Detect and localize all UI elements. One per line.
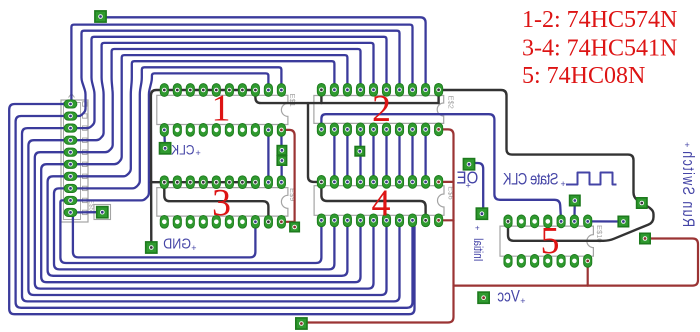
square pad E$5 (below connector) xyxy=(97,207,108,218)
wire connector pin1 fanout to U2.8 (top bundle) xyxy=(71,25,412,104)
wire connector pin10 to U3 pin8 (bottom lane) xyxy=(73,212,256,257)
wire U2 pin2 (bottom) to U4 pin2 (top) xyxy=(333,129,335,182)
wire Run Switch net: U2 pin10 to pad B to U5 pin1 xyxy=(439,90,654,241)
wire OE pad to Initial pad xyxy=(472,163,483,214)
svg-text:+: + xyxy=(685,140,690,150)
wire U2 pin9 (bottom) to U4 pin9 (top) xyxy=(424,129,426,182)
wire U3 top bus pins1-8 xyxy=(151,181,256,183)
svg-text:3: 3 xyxy=(212,182,231,224)
node label CLK xyxy=(171,142,195,158)
connector J1 pin ticks xyxy=(83,102,88,106)
U1 top pad row xyxy=(160,84,168,97)
square pad bottom (Vcc rail end) xyxy=(296,318,307,329)
wire GND bus branch down to U4 pin1 xyxy=(308,103,321,182)
via V3 (power, right of U3) xyxy=(290,222,299,231)
wire Vcc net: U2 pin10 down right side to bottom pad xyxy=(301,129,453,322)
wire U1 pin10 (bottom) to U3 pin10 (top) via V1 V2 xyxy=(280,130,283,182)
wire U2 pin6 (bottom) to U4 pin6 (top) xyxy=(385,129,387,182)
wire connector pin9 fanout to U1.9 (top bundle) xyxy=(77,73,268,200)
svg-text:1: 1 xyxy=(212,87,231,129)
svg-text:+: + xyxy=(196,148,201,158)
wire U1 pin1 (bottom) to CLK pad xyxy=(163,130,166,146)
node label GND xyxy=(163,235,191,251)
U2 top pad row xyxy=(317,83,325,96)
node label Run Switch xyxy=(679,150,697,227)
wire U2 pin4 (bottom) to U4 pin4 (top) xyxy=(359,129,361,182)
svg-text:+: + xyxy=(191,243,196,253)
wire U2 pin10 top from bus xyxy=(437,90,439,103)
wire U2 pin7 (bottom) to U4 pin7 (top) xyxy=(398,129,400,182)
svg-text:+: + xyxy=(475,224,480,233)
connector pin1 silk marker xyxy=(69,94,75,98)
wire U2 pin3 (bottom) to U4 pin3 (top) xyxy=(346,129,348,182)
svg-text:CLK: CLK xyxy=(171,142,195,158)
svg-text:5: 74HC08N: 5: 74HC08N xyxy=(522,63,645,89)
IC U5 body outline xyxy=(500,226,593,256)
U5 top pad row xyxy=(504,215,512,228)
wire connector pin5 to U4.5 (bottom bundle) xyxy=(35,152,374,288)
State CLK waveform symbol xyxy=(566,173,617,185)
square pad C (Run Switch, red) xyxy=(640,233,650,243)
wire U3 pin1 to U3 pin9 internal route xyxy=(164,182,268,222)
square pad Initial xyxy=(476,208,487,219)
node label State CLK xyxy=(503,171,559,189)
U4 bottom pad row xyxy=(317,214,325,227)
wire connector pin5 fanout to U2.4 (top bundle) xyxy=(77,49,361,152)
wire connector pin1 bottom bundle outer lane xyxy=(9,104,414,314)
pad E$5 silkscreen box xyxy=(94,205,111,220)
wire square pad TP1 to U2 pin9 (top) xyxy=(101,17,426,90)
wire U5 pin7 bottom to Vcc rail xyxy=(587,261,589,286)
svg-text:E$1: E$1 xyxy=(288,94,297,107)
square pad OE xyxy=(463,159,474,170)
connector J1 silkscreen outline xyxy=(61,100,88,222)
IC U3 body outline xyxy=(157,188,288,217)
svg-text:3-4: 74HC541N: 3-4: 74HC541N xyxy=(522,35,677,61)
wire Vcc stub to U4 pin10 bottom xyxy=(439,219,454,221)
wire GND pad up to U1 top bus and across U1 pins1-8 xyxy=(151,90,256,248)
square pad Vcc xyxy=(478,292,489,303)
node label Vcc xyxy=(497,288,520,305)
wire connector pin9 to U4.1 (bottom bundle) xyxy=(60,200,321,263)
wire U5 pin7 to pad A xyxy=(588,220,624,222)
via V2 xyxy=(277,156,286,165)
wire U4 pin1 to U4 pin9 internal route xyxy=(321,182,425,220)
svg-text:Vcc: Vcc xyxy=(497,288,520,305)
connector J1 pad column xyxy=(64,100,77,108)
svg-text:E$2: E$2 xyxy=(447,96,456,109)
U5 bottom pad row xyxy=(504,255,512,268)
via V1 xyxy=(277,146,286,155)
wire connector pin3 fanout to U2.6 (top bundle) xyxy=(77,37,387,128)
via V4 (on U2.4-U4.4 net) xyxy=(355,147,364,156)
svg-text:2: 2 xyxy=(372,88,391,130)
wire connector pin4 fanout to U2.5 (top bundle) xyxy=(77,43,374,140)
svg-text:Initial: Initial xyxy=(471,238,484,261)
wire connector pin3 to U4.7 (bottom bundle) xyxy=(22,128,400,301)
wire GND bus branch up to U2 pin1 xyxy=(320,90,322,103)
IC U2 body outline xyxy=(314,96,444,124)
wire U2 pin5 (bottom) to U4 pin5 (top) xyxy=(372,129,374,182)
wire stub to U3 pin10 bottom xyxy=(281,221,294,223)
IC U1 body outline xyxy=(157,95,288,124)
wire connector pin4 to U4.6 (bottom bundle) xyxy=(28,140,386,295)
svg-text:+: + xyxy=(520,296,525,306)
U2 bottom pad row xyxy=(317,123,325,136)
wire TP State-CLK via to U5 pin6 xyxy=(573,201,576,222)
wire connector pin8 fanout to U1.10 (top bundle) xyxy=(77,67,281,188)
svg-text:Run Switch: Run Switch xyxy=(679,150,697,227)
svg-text:State CLK: State CLK xyxy=(503,171,559,189)
wire connector pin7 to U4.3 (bottom bundle) xyxy=(48,176,348,275)
wire GND bus jog right of U1 to U2 xyxy=(255,90,438,103)
wire Vcc stub to U4 pin10 top xyxy=(439,181,454,183)
node label OE xyxy=(456,169,478,188)
wire via V3 drop xyxy=(294,222,296,227)
wire U1 pin10 to U3 pin10 and via V3 (power) xyxy=(281,130,294,222)
square pad A (right of U5) xyxy=(618,216,628,226)
wire U2 pin1 to State CLK to U5 pin5 xyxy=(321,114,561,221)
wire connector pin7 fanout to U2.2 (top bundle) xyxy=(77,61,334,176)
wire connector pin2 fanout to U2.7 (top bundle) xyxy=(77,31,400,116)
square pad CLK xyxy=(160,143,171,154)
wire U2 pin8 (bottom) to U4 pin8 (top) xyxy=(411,129,413,182)
U1 bottom pad row xyxy=(160,124,168,137)
wire U1 pin9 (bottom) to U3 pin9 (top) xyxy=(267,130,269,182)
wire connector pin6 fanout to U2.3 (top bundle) xyxy=(77,55,347,164)
square pad TP1 (top left) xyxy=(95,11,106,22)
svg-text:+: + xyxy=(561,179,566,189)
square pad B (Run Switch, black) xyxy=(637,198,647,208)
svg-text:4: 4 xyxy=(372,182,391,224)
U3 bottom pad row xyxy=(160,215,168,228)
wire connector pin2 to U4.8 (bottom bundle) xyxy=(16,116,413,308)
svg-text:+: + xyxy=(466,181,471,191)
svg-text:1-2: 74HC574N: 1-2: 74HC574N xyxy=(522,7,677,33)
wire connector pin8 to U4.2 (bottom bundle) xyxy=(54,188,334,269)
node label Initial xyxy=(471,238,484,261)
wire connector pin10 to pad E$5 xyxy=(77,211,97,213)
square pad State-CLK test point xyxy=(570,195,580,205)
wire connector pin6 to U4.4 (bottom bundle) xyxy=(41,164,360,282)
IC U4 body outline xyxy=(314,186,444,216)
U3 top pad row xyxy=(160,176,168,189)
square pad GND xyxy=(146,242,157,253)
wire Vcc bottom rail to right edge xyxy=(454,239,699,286)
svg-text:5: 5 xyxy=(541,220,560,262)
svg-text:GND: GND xyxy=(163,235,191,251)
U4 top pad row xyxy=(317,176,325,189)
